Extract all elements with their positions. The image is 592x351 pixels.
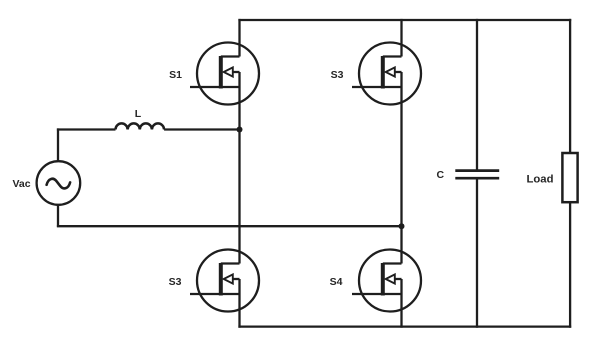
svg-text:S1: S1: [169, 69, 182, 81]
S1 source contact and gate lead: [190, 86, 240, 88]
S3_bottom body circle: [197, 250, 259, 312]
S4 body circle: [359, 250, 421, 312]
node: left leg midpoint junction: [237, 127, 243, 133]
S3_bottom body arrow: [233, 278, 240, 280]
S1 body circle: [197, 43, 259, 105]
wire: Vac to inductor: [57, 128, 116, 130]
svg-text:S3: S3: [331, 69, 344, 81]
S1 drain contact: [221, 55, 240, 57]
Vac sine symbol: [47, 179, 71, 189]
S4 drain contact: [383, 262, 402, 264]
S3_top body circle: [359, 43, 421, 105]
wire: top bus to capacitor: [476, 19, 478, 170]
svg-text:Load: Load: [527, 173, 554, 185]
wire: left bridge leg, lower S3 source to bottom bus: [238, 279, 240, 328]
wire: right bridge leg, S3 source to S4 drain: [400, 72, 402, 264]
transistor S3_bottom (N-MOSFET): [190, 250, 259, 312]
S3_bottom gate bar: [219, 263, 223, 296]
S3_top body arrow: [395, 71, 402, 73]
S3_top drain contact: [383, 55, 402, 57]
wire: top DC bus: [238, 19, 571, 21]
S4 gate bar: [381, 263, 385, 296]
wire: left bridge leg, S1 drain: [238, 19, 240, 57]
svg-text:L: L: [135, 108, 142, 120]
S1 body arrow: [233, 71, 240, 73]
inductor L: [116, 123, 165, 129]
wire: left bridge leg, S1 source to S3(lower) drain: [238, 72, 240, 264]
resistor Load: [562, 153, 577, 202]
C top plate: [455, 169, 499, 172]
S3_top gate bar: [381, 56, 385, 89]
transistor S3_top (N-MOSFET): [352, 43, 421, 105]
wire: bottom DC bus: [238, 325, 571, 327]
S4 source contact and gate lead: [352, 293, 402, 295]
wire: Vac upper lead: [57, 128, 59, 161]
wire: inductor to left leg midpoint: [164, 128, 239, 130]
C bottom plate: [455, 177, 499, 180]
svg-text:S4: S4: [330, 276, 343, 288]
wire: right bridge leg, S4 source to bottom bus: [400, 279, 402, 328]
svg-text:Vac: Vac: [12, 178, 30, 190]
node: right leg midpoint junction: [399, 223, 405, 229]
S3_top source contact and gate lead: [352, 86, 402, 88]
S4 body arrow: [395, 278, 402, 280]
wire: Vac lower lead: [57, 205, 59, 227]
S3_bottom drain contact: [221, 262, 240, 264]
S1 gate bar: [219, 56, 223, 89]
wire: capacitor to bottom bus: [476, 180, 478, 328]
wire: right bridge leg, S3 drain: [400, 19, 402, 57]
wire: Vac return to right leg midpoint: [57, 225, 402, 227]
transistor S1 (N-MOSFET): [190, 43, 259, 105]
transistor S4 (N-MOSFET): [352, 250, 421, 312]
capacitor C: [455, 171, 499, 179]
source Vac (AC source): [37, 161, 81, 205]
S3_bottom source contact and gate lead: [190, 293, 240, 295]
svg-text:C: C: [437, 169, 445, 181]
wire: load to bottom bus: [569, 202, 571, 328]
wire: top bus to load: [569, 19, 571, 153]
svg-text:S3: S3: [169, 276, 182, 288]
